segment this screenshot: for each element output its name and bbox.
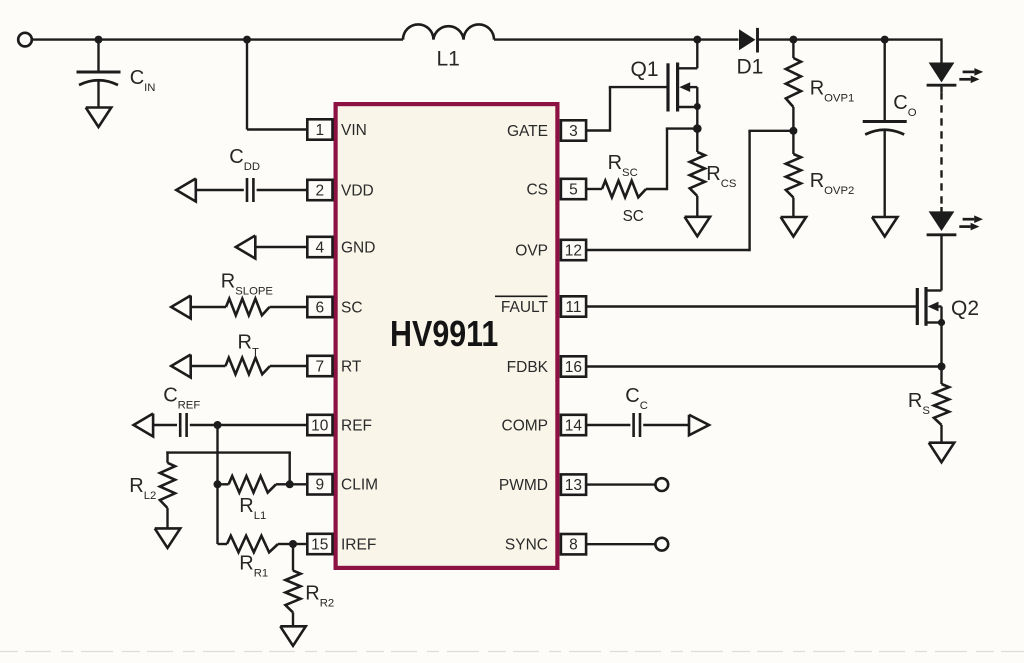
wire pin 5 to RSC xyxy=(586,188,602,190)
wire Q2 body to source xyxy=(940,307,942,323)
pin 5 box xyxy=(561,179,586,199)
inductor L1 xyxy=(403,24,494,39)
terminal PWMD xyxy=(655,478,668,491)
ground under RL2 xyxy=(155,528,181,548)
wire to CIN xyxy=(97,40,99,72)
wire L1 to D1 xyxy=(494,38,739,40)
wire junction to ROVP2 xyxy=(792,131,794,154)
svg-text:L1: L1 xyxy=(437,48,460,71)
node RL1 right junction xyxy=(286,480,294,488)
wire CC to arrow xyxy=(643,424,689,426)
svg-text:4: 4 xyxy=(315,239,324,256)
resistor RL2 xyxy=(160,463,175,508)
FAULT overline xyxy=(495,295,548,297)
output arrow COMP xyxy=(689,415,709,436)
wire to RSLOPE xyxy=(191,306,226,308)
pin 16 box xyxy=(561,356,586,376)
node OVP divider junction xyxy=(789,127,797,135)
ground arrow RSLOPE xyxy=(171,296,191,319)
IC HV9911 body xyxy=(336,104,558,568)
faint page edge line xyxy=(0,651,1024,653)
wire Q1 drain to rail xyxy=(696,40,698,69)
diode D1 xyxy=(739,29,755,50)
svg-text:14: 14 xyxy=(565,417,583,434)
pin 8 box xyxy=(561,534,586,554)
svg-text:VDD: VDD xyxy=(341,182,374,199)
ground under CO xyxy=(872,217,898,237)
resistor RT xyxy=(226,358,271,375)
wire OVP vertical xyxy=(748,131,750,251)
pin 10 box xyxy=(307,415,332,435)
svg-text:7: 7 xyxy=(315,358,324,375)
input terminal xyxy=(18,33,32,47)
svg-text:16: 16 xyxy=(565,359,582,376)
wire CIN to ground xyxy=(97,79,99,108)
svg-text:VIN: VIN xyxy=(341,122,367,139)
svg-text:2: 2 xyxy=(315,182,324,199)
wire D1 to LED string xyxy=(758,38,942,40)
svg-text:IREF: IREF xyxy=(341,536,376,553)
svg-text:GATE: GATE xyxy=(507,123,548,140)
node ROVP1 top junction xyxy=(789,36,797,44)
svg-text:3: 3 xyxy=(569,123,578,140)
wire pin 13 to terminal xyxy=(586,483,655,485)
ground arrow GND xyxy=(236,236,256,259)
capacitor CC xyxy=(632,413,635,437)
svg-text:RT: RT xyxy=(341,358,362,375)
wire gate horizontal xyxy=(609,86,668,88)
svg-text:GND: GND xyxy=(341,239,375,256)
svg-text:8: 8 xyxy=(569,537,578,554)
pin 1 box xyxy=(307,119,332,139)
wire to CDD xyxy=(196,189,244,191)
svg-text:REF: REF xyxy=(341,417,372,434)
svg-text:10: 10 xyxy=(311,417,329,434)
wire SC vertical xyxy=(666,129,668,191)
resistor RS xyxy=(934,384,949,425)
node Q2 source junction xyxy=(938,319,945,326)
resistor RR2 xyxy=(285,571,300,613)
wire pin 14 to CC xyxy=(586,424,630,426)
LED D2 (top) xyxy=(929,63,955,83)
svg-text:15: 15 xyxy=(311,536,328,553)
pin 3 box xyxy=(561,120,586,140)
wire pin 16 to sense node xyxy=(586,365,942,367)
svg-text:6: 6 xyxy=(315,299,324,316)
wire rail to ROVP1 xyxy=(792,40,794,58)
svg-text:CS: CS xyxy=(526,181,548,198)
wire pin 8 to terminal xyxy=(586,543,655,545)
svg-text:Q2: Q2 xyxy=(951,297,979,320)
svg-text:D1: D1 xyxy=(737,56,764,79)
capacitor CREF xyxy=(179,413,182,437)
wire RSLOPE to pin 6 xyxy=(270,306,308,308)
svg-text:HV9911: HV9911 xyxy=(390,315,498,355)
node VIN junction xyxy=(243,36,251,44)
wire pin 11 to Q2 gate xyxy=(586,305,917,307)
wire input to L1 xyxy=(32,38,403,40)
wire CDD to pin 2 xyxy=(257,189,308,191)
LED D2 light arrows xyxy=(963,71,975,74)
wire to RT xyxy=(191,365,226,367)
wire to CREF xyxy=(153,424,177,426)
svg-text:SC: SC xyxy=(623,208,644,225)
wire RCS to ground xyxy=(696,196,698,217)
svg-text:PWMD: PWMD xyxy=(499,477,548,494)
node RL1 left junction xyxy=(214,480,222,488)
wire RSC to corner xyxy=(646,188,667,190)
pin 6 box xyxy=(307,297,332,317)
wire ROVP1 to junction xyxy=(792,107,794,131)
transistor Q1 xyxy=(666,63,669,111)
ground under RS xyxy=(929,443,955,463)
wire RL2 top xyxy=(166,451,168,462)
node REF junction xyxy=(214,421,222,429)
wire CLIM corner vertical xyxy=(289,453,291,485)
wire gate vertical xyxy=(609,87,611,132)
svg-text:5: 5 xyxy=(569,181,578,198)
svg-text:Q1: Q1 xyxy=(631,58,659,81)
svg-text:FAULT: FAULT xyxy=(501,299,549,316)
ground under RR2 xyxy=(280,626,306,646)
resistor RSLOPE xyxy=(226,299,270,316)
wire VIN to pin 1 xyxy=(247,128,307,130)
resistor RR1 xyxy=(227,536,278,553)
pin 14 box xyxy=(561,415,586,435)
svg-text:FDBK: FDBK xyxy=(507,359,549,376)
wire rail corner to LED1 xyxy=(940,38,942,63)
wire pin 12 to OVP corner xyxy=(586,249,750,251)
capacitor CO xyxy=(863,120,907,123)
svg-text:OVP: OVP xyxy=(515,242,548,259)
LED D3 light arrows xyxy=(963,218,975,221)
terminal SYNC xyxy=(655,538,668,551)
svg-text:9: 9 xyxy=(315,477,324,494)
wire to RCS xyxy=(696,129,698,152)
node input/CIN junction xyxy=(95,36,103,44)
ground arrow RT xyxy=(171,355,191,378)
resistor RCS xyxy=(690,152,705,196)
wire RS to ground xyxy=(940,425,942,443)
resistor ROVP1 xyxy=(786,58,801,107)
wire to RR2 xyxy=(292,544,294,571)
wire OVP horizontal xyxy=(748,130,793,132)
wire CLIM upper horizontal xyxy=(166,451,291,453)
wire RR2 to ground xyxy=(292,612,294,626)
ground under ROVP2 xyxy=(781,217,807,237)
wire Q1 body-source xyxy=(696,87,698,129)
node Q1 drain junction xyxy=(693,36,701,44)
svg-text:SYNC: SYNC xyxy=(505,537,548,554)
resistor RL1 xyxy=(229,476,276,493)
node FDBK junction xyxy=(938,363,946,371)
node Q1 source junction xyxy=(694,103,701,110)
wire RT to pin 7 xyxy=(270,365,307,367)
node CO junction xyxy=(881,36,889,44)
wire ROVP2 to ground xyxy=(792,198,794,218)
svg-text:11: 11 xyxy=(565,299,581,316)
pin 2 box xyxy=(307,180,332,200)
pin 9 box xyxy=(307,474,332,494)
wire junction to pin 15 xyxy=(293,543,307,545)
pin 4 box xyxy=(307,237,332,257)
wire CREF to pin 10 xyxy=(190,424,307,426)
pin 15 box xyxy=(307,534,332,554)
capacitor CIN xyxy=(77,71,121,74)
svg-text:CLIM: CLIM xyxy=(341,477,378,494)
wire Q2 source down xyxy=(940,323,942,385)
transistor Q2 xyxy=(916,288,919,325)
pin 11 box xyxy=(561,296,586,316)
wire RL1 to junction xyxy=(276,483,290,485)
ground arrow CREF xyxy=(134,414,154,437)
capacitor CDD xyxy=(246,178,249,202)
svg-text:SC: SC xyxy=(341,299,363,316)
wire LED3 to Q2 drain xyxy=(940,235,942,291)
wire rail to CO xyxy=(884,40,886,122)
wire to RL1 xyxy=(218,483,229,485)
pin 12 box xyxy=(561,240,586,260)
ground arrow VDD xyxy=(176,179,196,202)
node Q1 source / RCS junction xyxy=(693,124,702,133)
wire SC horizontal to source xyxy=(666,127,698,129)
wire CO to ground xyxy=(884,129,886,218)
LED D3 (bottom) xyxy=(929,211,955,231)
wire to RR1 xyxy=(218,543,228,545)
ground under RCS xyxy=(685,217,711,237)
pin 13 box xyxy=(561,474,586,494)
wire junction to pin 9 xyxy=(290,483,308,485)
svg-text:13: 13 xyxy=(565,477,582,494)
ground under CIN xyxy=(86,108,112,128)
wire REF vertical xyxy=(216,425,218,544)
pin 7 box xyxy=(307,356,332,376)
wire pin 3 to gate corner xyxy=(586,129,610,131)
svg-text:12: 12 xyxy=(565,242,582,259)
wire VIN vertical xyxy=(246,40,248,130)
node IREF junction xyxy=(289,540,297,548)
svg-text:1: 1 xyxy=(315,122,324,139)
svg-text:COMP: COMP xyxy=(502,417,549,434)
wire RR1 to junction xyxy=(278,543,293,545)
wire RL2 to ground xyxy=(166,508,168,528)
wire GND arrow to pin 4 xyxy=(255,246,307,248)
resistor ROVP2 xyxy=(786,154,801,198)
dashed LED string wire xyxy=(940,87,942,93)
resistor RSC xyxy=(602,181,646,198)
